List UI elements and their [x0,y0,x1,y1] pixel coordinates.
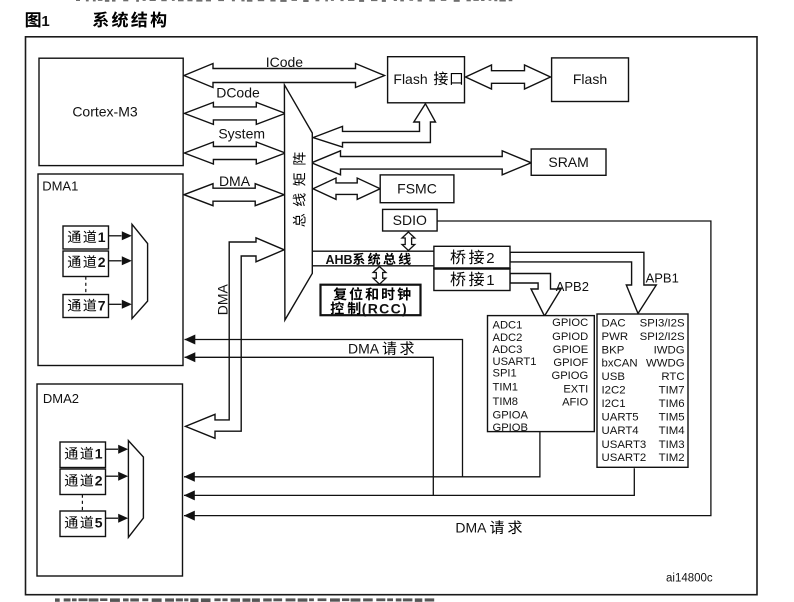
svg-text:DMA: DMA [215,283,231,315]
svg-text:RTC: RTC [661,371,684,383]
svg-text:WWDG: WWDG [646,358,685,370]
svg-text:PWR: PWR [602,331,629,343]
svg-text:TIM7: TIM7 [659,385,685,397]
svg-text:DMA1: DMA1 [42,179,78,194]
svg-text:DCode: DCode [216,85,260,101]
svg-text:7: 7 [98,298,106,314]
svg-text:TIM6: TIM6 [659,398,685,410]
svg-text:1: 1 [41,13,49,30]
svg-text:1: 1 [486,272,494,289]
svg-text:TIM1: TIM1 [493,381,518,393]
svg-text:USB: USB [602,371,625,383]
svg-text:GPIOA: GPIOA [493,410,529,422]
svg-text:I2C1: I2C1 [602,398,626,410]
svg-text:UART5: UART5 [602,412,639,424]
svg-text:DAC: DAC [602,317,626,329]
svg-text:SDIO: SDIO [393,212,427,228]
svg-text:IWDG: IWDG [654,344,685,356]
svg-text:ADC1: ADC1 [493,320,523,332]
svg-text:UART4: UART4 [602,425,639,437]
svg-text:1: 1 [95,446,103,462]
svg-text:DMA: DMA [455,520,487,536]
svg-text:GPIOC: GPIOC [552,317,588,329]
svg-text:TIM4: TIM4 [659,425,685,437]
svg-text:GPIOB: GPIOB [493,422,528,434]
svg-text:System: System [218,126,265,142]
svg-text:Flash: Flash [573,71,607,87]
svg-text:AHB: AHB [326,253,353,267]
svg-text:GPIOE: GPIOE [553,344,588,356]
svg-text:TIM2: TIM2 [659,452,685,464]
svg-text:Flash: Flash [393,71,427,87]
svg-text:DMA: DMA [348,341,380,357]
svg-text:APB2: APB2 [556,279,589,294]
svg-text:GPIOF: GPIOF [553,357,588,369]
svg-text:SPI2/I2S: SPI2/I2S [640,331,685,343]
svg-text:2: 2 [486,250,494,267]
svg-text:ADC2: ADC2 [493,332,523,344]
svg-text:ai14800c: ai14800c [666,573,713,585]
svg-text:TIM3: TIM3 [659,439,685,451]
svg-text:TIM8: TIM8 [493,396,518,408]
svg-text:GPIOG: GPIOG [552,370,589,382]
svg-text:FSMC: FSMC [397,181,437,197]
svg-text:EXTI: EXTI [563,383,588,395]
svg-text:(RCC): (RCC) [362,300,408,316]
svg-text:USART2: USART2 [602,452,647,464]
svg-text:Cortex-M3: Cortex-M3 [72,104,138,120]
svg-text:1: 1 [98,229,106,245]
svg-text:SPI3/I2S: SPI3/I2S [640,317,685,329]
svg-text:I2C2: I2C2 [602,385,626,397]
svg-text:DMA2: DMA2 [43,391,79,406]
svg-text:TIM5: TIM5 [659,412,685,424]
svg-text:DMA: DMA [219,173,251,189]
svg-text:5: 5 [95,515,103,531]
svg-text:ICode: ICode [266,54,304,70]
svg-text:BKP: BKP [602,344,625,356]
svg-text:APB1: APB1 [646,270,679,285]
svg-text:2: 2 [98,254,106,270]
svg-text:2: 2 [95,473,103,489]
svg-text:SRAM: SRAM [548,154,588,170]
svg-text:USART3: USART3 [602,439,647,451]
svg-text:bxCAN: bxCAN [602,358,638,370]
svg-text:AFIO: AFIO [562,397,588,409]
svg-text:GPIOD: GPIOD [552,331,588,343]
svg-text:SPI1: SPI1 [493,367,517,379]
svg-text:ADC3: ADC3 [493,344,523,356]
